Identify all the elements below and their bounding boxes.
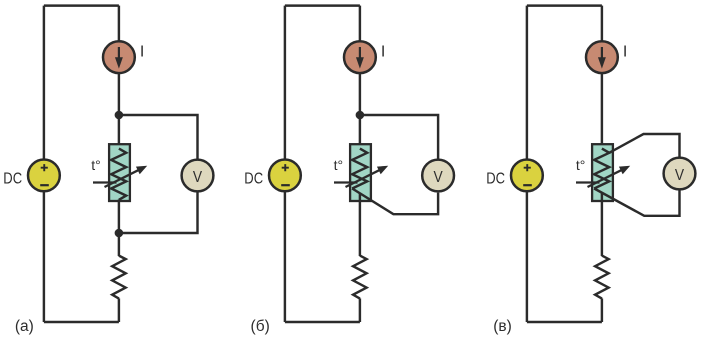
wire: bottom rail a bbox=[44, 321, 119, 323]
plus sign b bbox=[282, 164, 289, 171]
wire: thermistor to resistor a bbox=[118, 200, 120, 257]
wire: bottom rail b bbox=[285, 321, 360, 323]
thermistor arrow diagonal v bbox=[588, 168, 626, 187]
series resistor zigzag v bbox=[595, 256, 609, 299]
wire: left vertical upper b (to DC source) bbox=[284, 6, 286, 160]
thermistor arrow tail a bbox=[93, 181, 117, 183]
wire: thermistor to resistor b bbox=[359, 193, 361, 256]
minus sign b bbox=[281, 184, 290, 186]
wire: voltmeter bottom tap diagonal v bbox=[594, 189, 679, 216]
thermistor arrowhead b bbox=[377, 166, 388, 175]
wire: resistor to bottom rail b bbox=[359, 298, 361, 322]
wire: left vertical lower b bbox=[284, 192, 286, 323]
series resistor zigzag a bbox=[112, 256, 126, 299]
thermistor zigzag b bbox=[352, 149, 367, 189]
svg-text:V: V bbox=[675, 167, 684, 184]
thermistor zigzag v bbox=[594, 149, 609, 189]
wire: top branch to voltmeter a bbox=[119, 115, 198, 160]
wire: main vertical top a bbox=[118, 6, 120, 42]
svg-text:(б): (б) bbox=[251, 318, 270, 335]
thermistor arrow diagonal a bbox=[105, 168, 143, 187]
thermistor arrowhead v bbox=[619, 166, 630, 175]
thermistor arrow diagonal b bbox=[346, 168, 384, 187]
svg-text:DC: DC bbox=[486, 170, 505, 187]
ammeter (current source) a bbox=[103, 41, 135, 73]
wire: top rail v bbox=[527, 4, 602, 6]
wire: main vertical top b bbox=[359, 6, 361, 42]
thermistor arrow tail b bbox=[334, 181, 358, 183]
plus sign v bbox=[524, 164, 531, 171]
svg-text:(а): (а) bbox=[15, 318, 34, 335]
wire: ammeter to thermistor v bbox=[601, 74, 603, 150]
node: bottom junction dot a bbox=[115, 229, 124, 238]
wire: top rail a bbox=[44, 4, 119, 6]
ammeter arrow b bbox=[359, 47, 361, 60]
thermistor body v bbox=[592, 144, 613, 201]
thermistor arrowhead a bbox=[136, 166, 147, 175]
minus sign v bbox=[523, 184, 532, 186]
svg-text:DC: DC bbox=[244, 170, 263, 187]
svg-text:I: I bbox=[623, 44, 627, 61]
node: top junction dot b bbox=[356, 111, 365, 120]
svg-text:V: V bbox=[434, 169, 443, 186]
wire: left vertical lower v bbox=[526, 192, 528, 323]
wire: ammeter to thermistor b bbox=[359, 74, 361, 150]
voltmeter a bbox=[182, 160, 214, 192]
DC source a bbox=[28, 160, 60, 192]
wire: main vertical top v bbox=[601, 6, 603, 42]
svg-text:DC: DC bbox=[3, 170, 22, 187]
wire: bottom branch to voltmeter a bbox=[119, 192, 198, 233]
wire: left vertical lower a bbox=[43, 192, 45, 323]
wire: thermistor to resistor v bbox=[601, 193, 603, 256]
wire: left vertical upper a (to DC source) bbox=[43, 6, 45, 160]
wire: top branch to voltmeter b bbox=[360, 115, 438, 160]
node: top junction dot a bbox=[115, 111, 124, 120]
svg-text:(в): (в) bbox=[493, 318, 512, 335]
svg-text:V: V bbox=[193, 169, 202, 186]
voltmeter b bbox=[422, 160, 454, 192]
wire: resistor to bottom rail a bbox=[118, 298, 120, 322]
wire: resistor to bottom rail v bbox=[601, 298, 603, 322]
wire: voltmeter tap diagonal b bbox=[352, 189, 438, 215]
svg-text:t°: t° bbox=[576, 157, 586, 173]
svg-text:t°: t° bbox=[91, 157, 101, 173]
DC source v bbox=[511, 160, 543, 192]
thermistor arrow tail v bbox=[576, 181, 600, 183]
wire: top rail b bbox=[285, 4, 360, 6]
DC source b bbox=[269, 160, 301, 192]
svg-text:t°: t° bbox=[334, 157, 344, 173]
ammeter (current source) v bbox=[586, 41, 618, 73]
thermistor body b bbox=[350, 144, 371, 201]
wire: voltmeter top tap diagonal v bbox=[609, 134, 679, 158]
ammeter arrow v bbox=[601, 47, 603, 60]
svg-text:I: I bbox=[140, 44, 144, 61]
ammeter arrow a bbox=[118, 47, 120, 60]
svg-text:I: I bbox=[381, 44, 385, 61]
thermistor body a bbox=[109, 144, 130, 201]
thermistor zigzag a bbox=[111, 149, 126, 200]
ammeter (current source) b bbox=[344, 41, 376, 73]
minus sign a bbox=[40, 184, 49, 186]
voltmeter v bbox=[664, 158, 696, 190]
wire: ammeter to thermistor a bbox=[118, 74, 120, 150]
plus sign a bbox=[41, 164, 48, 171]
wire: left vertical upper v (to DC source) bbox=[526, 6, 528, 160]
series resistor zigzag b bbox=[353, 256, 367, 299]
wire: bottom rail v bbox=[527, 321, 602, 323]
